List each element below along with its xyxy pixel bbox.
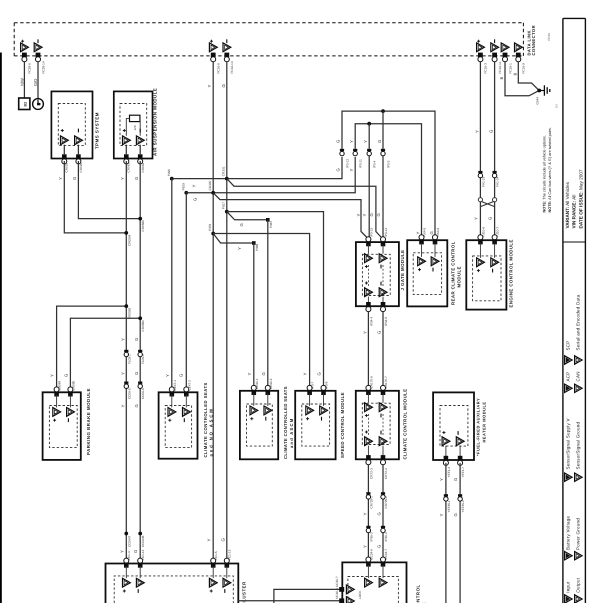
svg-text:CR063: CR063 — [127, 163, 131, 173]
svg-text:CC0647: CC0647 — [127, 535, 131, 547]
data link connector box — [14, 22, 523, 24]
svg-text:IP36-3: IP36-3 — [369, 532, 373, 541]
svg-text:B: B — [499, 77, 504, 80]
svg-text:and NO ASCM: and NO ASCM — [209, 407, 214, 456]
svg-text:G: G — [220, 538, 225, 542]
svg-text:G: G — [377, 512, 382, 515]
wire H1 (to riser IP3) — [172, 157, 342, 179]
svg-text:Output: Output — [576, 577, 581, 593]
svg-text:IP3-14: IP3-14 — [384, 228, 388, 237]
wire H4 to J-gate pin1 — [213, 193, 368, 239]
wire H5b to seats-ASCM pin2 — [227, 212, 268, 220]
svg-text:IP3-11: IP3-11 — [359, 159, 363, 168]
wire H2 to J-gate pin2 — [227, 179, 383, 239]
module REAR CLIMATE CONTROL MODULE — [407, 240, 447, 306]
svg-text:AIR SUSPENSION MODULE: AIR SUSPENSION MODULE — [153, 88, 158, 156]
svg-text:IP36-4: IP36-4 — [384, 532, 388, 541]
wire TPMS G join — [78, 161, 140, 219]
svg-text:G: G — [261, 372, 266, 375]
engine Y wire — [479, 62, 481, 238]
sidebar box — [562, 18, 564, 603]
DLC pin at x=213.2 — [209, 43, 217, 52]
heater Y wire — [445, 463, 447, 603]
svg-text:CC06-5: CC06-5 — [127, 388, 131, 399]
svg-text:FH1-23: FH1-23 — [481, 176, 485, 187]
svg-text:IP3-4: IP3-4 — [373, 160, 377, 168]
svg-text:FC28-6: FC28-6 — [28, 63, 32, 74]
wire J-gate to climate control pin2 — [382, 312, 384, 386]
svg-text:SCP: SCP — [565, 340, 570, 350]
svg-text:G: G — [179, 374, 184, 377]
svg-text:MODULE: MODULE — [456, 266, 461, 287]
svg-text:G: G — [72, 177, 77, 180]
wire B to ground — [505, 62, 539, 96]
svg-text:G: G — [336, 168, 341, 171]
wire H5a to speed control pin2 — [227, 212, 324, 389]
wire N/W from DLC pin1 — [23, 62, 25, 98]
svg-text:CD330: CD330 — [208, 180, 212, 190]
svg-text:CE47-2: CE47-2 — [187, 380, 191, 391]
svg-text:G: G — [134, 338, 139, 341]
wire TPMS Y join — [64, 161, 126, 233]
risers below IP3 row to J gate — [368, 156, 370, 240]
module TPMS SYSTEM — [51, 91, 92, 158]
svg-text:REAR CLIMATE CONTROL: REAR CLIMATE CONTROL — [450, 241, 455, 305]
splice P378 — [211, 232, 215, 236]
module INSTRUMENT CLUSTER — [106, 564, 239, 604]
svg-text:Y: Y — [349, 169, 354, 172]
svg-text:IP3-8: IP3-8 — [325, 381, 329, 389]
svg-text:G: G — [134, 177, 139, 180]
svg-text:SPEED CONTROL MODULE: SPEED CONTROL MODULE — [340, 392, 345, 458]
wire into stability left pin2 — [238, 600, 340, 602]
svg-text:IP3-13: IP3-13 — [370, 228, 374, 237]
svg-text:P988: P988 — [255, 243, 259, 251]
svg-text:CR026: CR026 — [79, 163, 83, 173]
svg-text:Y: Y — [362, 545, 367, 548]
splice on Y bus — [211, 191, 215, 195]
svg-text:CR725-2: CR725-2 — [384, 496, 388, 509]
svg-text:FH1-24: FH1-24 — [496, 176, 500, 187]
DLC pin at x=480.4 — [477, 43, 485, 52]
svg-text:CLIMATE CONTROL MODULE: CLIMATE CONTROL MODULE — [403, 388, 408, 459]
svg-text:CR331: CR331 — [222, 166, 226, 176]
wire parking brake G join — [70, 318, 140, 388]
splice P929 — [184, 191, 188, 195]
svg-text:G: G — [239, 223, 244, 226]
svg-text:FC16-6: FC16-6 — [217, 63, 221, 74]
svg-text:VARIANT: All Vehicles: VARIANT: All Vehicles — [565, 181, 570, 228]
svg-text:CR72-4: CR72-4 — [384, 468, 388, 479]
wire parking brake Y join — [57, 306, 127, 388]
svg-text:B: B — [512, 73, 517, 76]
inline connector TL05 pair — [124, 350, 128, 352]
svg-text:0.5: 0.5 — [555, 104, 559, 108]
main bus G wire — [226, 62, 228, 561]
wire G/O from DLC pin2 — [37, 62, 39, 99]
left pair G wire — [139, 161, 141, 561]
svg-text:Y: Y — [120, 405, 125, 408]
junction on Hb — [367, 122, 371, 126]
svg-text:FC1-12: FC1-12 — [141, 549, 145, 560]
svg-text:G: G — [376, 213, 381, 216]
wire Ha (G net) — [342, 111, 435, 237]
DLC pin at x=38.0 — [34, 43, 42, 52]
svg-text:G: G — [489, 130, 494, 133]
splice P917 — [225, 210, 229, 214]
svg-text:Y: Y — [50, 374, 55, 377]
svg-text:INSTRUMENT CLUSTER: INSTRUMENT CLUSTER — [242, 581, 247, 603]
module AIR SUSPENSION — [114, 91, 153, 158]
svg-text:CLIMATE CONTROLLED SEATS: CLIMATE CONTROLLED SEATS — [283, 386, 288, 459]
riser to connector IP3-3 — [382, 111, 384, 149]
svg-text:Y: Y — [207, 85, 212, 88]
module PARKING BRAKE MODULE — [43, 392, 81, 460]
wire H6 to speed control pin1 — [213, 234, 309, 389]
wire Hb (Y net) — [355, 124, 421, 238]
page border bar — [0, 53, 2, 604]
module SPEED CONTROL MODULE — [295, 391, 335, 460]
wire climate to stability pin1 — [367, 465, 369, 560]
svg-text:CC30-7: CC30-7 — [335, 576, 339, 587]
svg-text:CR084: CR084 — [58, 381, 62, 391]
svg-text:G: G — [63, 374, 68, 377]
module STABILITY CONTROL MODULE — [342, 562, 406, 603]
svg-text:G: G — [134, 404, 139, 407]
svg-text:FC16-3: FC16-3 — [484, 63, 488, 74]
svg-text:YET3-7: YET3-7 — [461, 467, 465, 478]
svg-text:G044: G044 — [536, 97, 540, 105]
svg-text:IP34-4: IP34-4 — [369, 317, 373, 326]
svg-text:P917: P917 — [222, 202, 226, 210]
DLC pin at x=24.4 — [21, 43, 29, 52]
svg-text:Y: Y — [473, 217, 478, 220]
svg-text:ACP: ACP — [565, 371, 570, 381]
svg-text:Y: Y — [439, 478, 444, 481]
svg-text:CR0580: CR0580 — [141, 320, 145, 332]
resistor 120 ohm — [130, 115, 140, 121]
inline connector CR72 pair — [366, 492, 370, 494]
svg-text:IP3-3: IP3-3 — [386, 160, 390, 168]
svg-text:FC1-5: FC1-5 — [214, 551, 218, 560]
svg-text:TPMS SYSTEM: TPMS SYSTEM — [95, 112, 100, 149]
riser J1 down to seats module — [171, 179, 173, 389]
splice CC0647 — [124, 532, 128, 536]
svg-text:Serial and Encoded Data: Serial and Encoded Data — [576, 294, 581, 350]
module CLIMATE CONTROL MODULE — [356, 391, 399, 460]
svg-text:NOTE: The circuits include all: NOTE: The circuits include all vehicle o… — [542, 135, 546, 212]
svg-text:Y: Y — [362, 513, 367, 516]
svg-text:Battery Voltage: Battery Voltage — [565, 515, 570, 550]
svg-text:CR025: CR025 — [65, 163, 69, 173]
svg-text:IP3-7: IP3-7 — [311, 381, 315, 389]
svg-text:G: G — [488, 217, 493, 220]
splice P990 — [170, 177, 174, 181]
main bus Y wire — [212, 62, 214, 561]
svg-text:FC16-9: FC16-9 — [522, 63, 526, 74]
svg-text:TL05-1: TL05-1 — [127, 354, 131, 364]
svg-text:IP34-5: IP34-5 — [384, 317, 388, 326]
svg-text:G: G — [336, 140, 341, 143]
svg-text:CR064: CR064 — [141, 163, 145, 173]
wire into stability left pin1 — [274, 589, 340, 603]
wire B to ground — [518, 62, 539, 90]
component B2 — [19, 98, 30, 110]
DLC pin at x=494.6 — [491, 43, 499, 52]
svg-text:Y: Y — [362, 331, 367, 334]
splice CR0582 — [124, 304, 128, 308]
svg-text:CC06-6: CC06-6 — [141, 388, 145, 399]
svg-text:CC0648: CC0648 — [141, 535, 145, 547]
module ENGINE CONTROL MODULE — [466, 240, 506, 309]
svg-text:G: G — [193, 198, 198, 201]
svg-text:CE90-1: CE90-1 — [255, 378, 259, 389]
left pair Y wire — [125, 161, 127, 561]
connector symbol (circle) — [33, 99, 44, 110]
svg-text:FC16-11: FC16-11 — [498, 61, 502, 73]
svg-text:Y: Y — [363, 140, 368, 143]
inline connector IP36 pair — [366, 526, 370, 528]
inline connector CC06 pair — [124, 382, 128, 384]
svg-text:120: 120 — [133, 125, 137, 130]
svg-text:CR085: CR085 — [72, 381, 76, 391]
svg-text:G: G — [453, 478, 458, 481]
svg-text:FC16-14: FC16-14 — [230, 61, 234, 73]
svg-text:CC30-9: CC30-9 — [335, 588, 339, 599]
svg-text:P929: P929 — [181, 183, 185, 191]
svg-text:Y: Y — [120, 177, 125, 180]
svg-text:FC16-1: FC16-1 — [508, 63, 512, 74]
wire J-gate to climate control pin1 — [367, 312, 369, 386]
svg-text:CE47-1: CE47-1 — [173, 380, 177, 391]
svg-text:FC16: FC16 — [547, 33, 551, 41]
splice CR0594 — [124, 231, 128, 235]
svg-text:G: G — [377, 331, 382, 334]
svg-text:N/W: N/W — [19, 78, 24, 86]
svg-text:Y: Y — [207, 539, 212, 542]
svg-text:SensorSignal Ground: SensorSignal Ground — [576, 421, 581, 469]
splice CR0580 — [138, 316, 142, 320]
svg-text:CONNECTOR: CONNECTOR — [531, 25, 536, 56]
inline connector YET35 pair — [444, 494, 448, 496]
svg-text:CR0594: CR0594 — [127, 234, 131, 246]
engine G wire — [494, 62, 496, 238]
svg-text:PARKING BRAKE MODULE: PARKING BRAKE MODULE — [86, 388, 91, 455]
svg-text:G/O: G/O — [33, 79, 38, 86]
svg-text:YET35-1: YET35-1 — [447, 500, 451, 512]
svg-text:CR72-3: CR72-3 — [369, 468, 373, 479]
svg-text:YET3-4: YET3-4 — [447, 467, 451, 478]
svg-text:CE90-2: CE90-2 — [269, 378, 273, 389]
junction on Ha — [381, 109, 385, 113]
svg-text:Y: Y — [120, 372, 125, 375]
module CLIMATE CONTROLLED SEATS and ASCM — [240, 391, 278, 460]
svg-text:DATE OF ISSUE: May 2007: DATE OF ISSUE: May 2007 — [579, 169, 584, 228]
svg-text:G: G — [377, 140, 382, 143]
svg-text:Y: Y — [120, 338, 125, 341]
svg-text:P378: P378 — [208, 224, 212, 232]
wire H3 (to riser IP3) — [186, 157, 355, 193]
svg-text:J GATE MODULE: J GATE MODULE — [400, 250, 405, 291]
wire H7 to seats-ASCM pin1 — [213, 234, 254, 244]
svg-text:CLIMATE CONTROLLED SEATS: CLIMATE CONTROLLED SEATS — [203, 382, 208, 457]
svg-text:P990: P990 — [167, 169, 171, 177]
svg-text:Y: Y — [362, 214, 367, 217]
svg-text:VIN RANGE: All: VIN RANGE: All — [572, 195, 577, 229]
splice CC0648 — [138, 532, 142, 536]
svg-text:CR725-1: CR725-1 — [369, 496, 373, 509]
svg-text:FC1-13: FC1-13 — [228, 549, 232, 560]
svg-text:Y: Y — [119, 550, 124, 553]
svg-text:Y: Y — [474, 130, 479, 133]
module J GATE MODULE — [356, 242, 399, 306]
svg-text:LOCK: LOCK — [358, 590, 362, 599]
svg-text:STABILITY CONTROL: STABILITY CONTROL — [415, 584, 420, 603]
svg-text:G: G — [429, 231, 434, 234]
svg-text:Y: Y — [237, 247, 242, 250]
svg-text:Y: Y — [349, 140, 354, 143]
DLC pin at x=518.3 — [515, 43, 523, 52]
svg-text:G: G — [133, 550, 138, 553]
svg-text:and ASCM: and ASCM — [289, 418, 294, 448]
splice CR0586 — [138, 217, 142, 221]
heater G wire — [459, 463, 461, 603]
module *FUEL-FIRED AUXILIARY HEATER MODULE — [433, 392, 474, 460]
svg-text:HEATER MODULE: HEATER MODULE — [481, 401, 486, 442]
svg-text:CR0586: CR0586 — [141, 220, 145, 232]
svg-text:FC28-14: FC28-14 — [41, 61, 45, 73]
svg-text:Power Ground: Power Ground — [576, 518, 581, 550]
svg-text:Y: Y — [416, 232, 421, 235]
svg-text:Y: Y — [247, 373, 252, 376]
svg-text:FC1-4: FC1-4 — [127, 551, 131, 560]
svg-text:G: G — [369, 213, 374, 216]
svg-text:TL05-2: TL05-2 — [141, 354, 145, 364]
riser to connector IP3-4 — [368, 124, 370, 149]
svg-text:NOTE: All Can bus wires (Y & G: NOTE: All Can bus wires (Y & G) are twis… — [548, 127, 552, 212]
svg-text:CR0582: CR0582 — [127, 307, 131, 319]
DLC pin at x=505.0 — [501, 43, 509, 52]
riser J2 down to seats module — [185, 193, 187, 388]
svg-text:B2: B2 — [23, 102, 27, 107]
DLC pin at x=226.8 — [223, 43, 231, 52]
svg-text:Y: Y — [192, 185, 197, 188]
svg-text:G: G — [377, 545, 382, 548]
svg-text:IP3-12: IP3-12 — [345, 159, 349, 168]
svg-text:*FUEL-FIRED AUXILIARY: *FUEL-FIRED AUXILIARY — [475, 398, 480, 456]
svg-text:CAN: CAN — [576, 371, 581, 381]
svg-text:ENGINE CONTROL MODULE: ENGINE CONTROL MODULE — [509, 239, 514, 307]
svg-text:Y: Y — [165, 374, 170, 377]
svg-text:Y: Y — [439, 514, 444, 517]
inline connector row IP3 — [340, 149, 344, 151]
inline connector FH1 pair — [478, 171, 482, 173]
svg-text:Y: Y — [356, 214, 361, 217]
svg-text:G: G — [453, 513, 458, 516]
splice on G bus — [225, 177, 229, 181]
svg-text:G: G — [134, 372, 139, 375]
svg-text:Y: Y — [58, 177, 63, 180]
svg-text:SensorSignal Supply V: SensorSignal Supply V — [565, 418, 570, 469]
svg-text:P987: P987 — [269, 220, 273, 228]
module CLIMATE CONTROLLED SEATS and NO ASCM — [159, 392, 198, 458]
twisted pair symbol — [478, 198, 482, 202]
svg-text:G: G — [221, 84, 226, 88]
svg-text:G: G — [317, 372, 322, 375]
ground G044 — [537, 89, 541, 93]
svg-text:YET35-2: YET35-2 — [461, 500, 465, 512]
wire climate to stability pin2 — [382, 465, 384, 560]
svg-text:Y: Y — [303, 373, 308, 376]
svg-text:Input: Input — [565, 581, 570, 593]
